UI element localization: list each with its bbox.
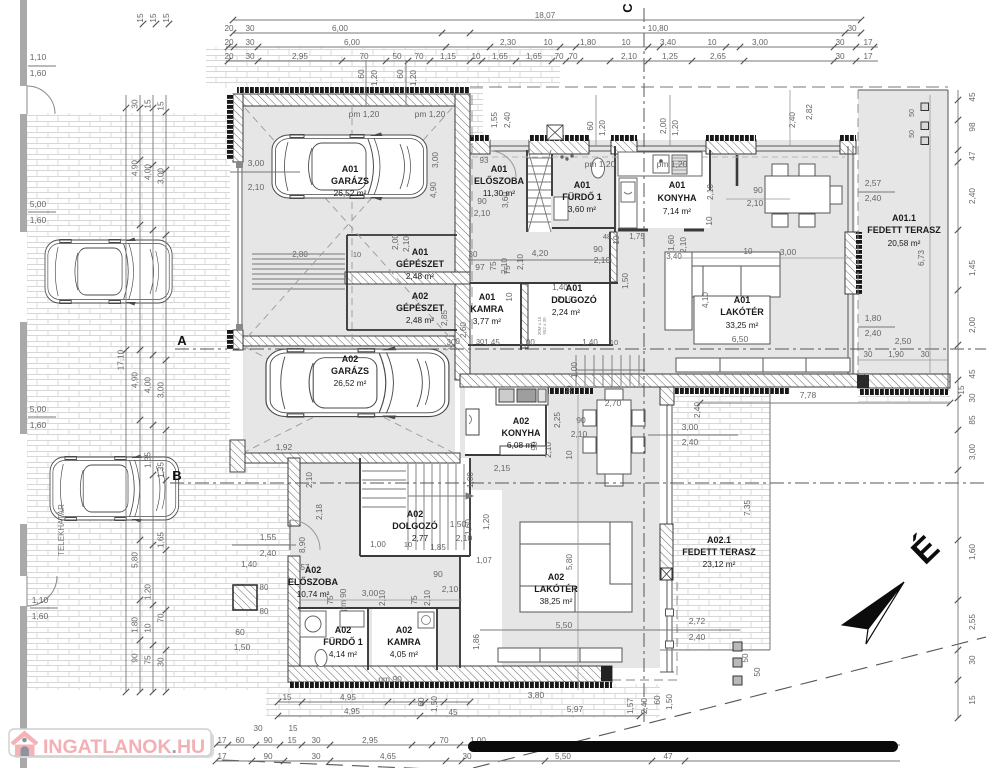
svg-text:1,65: 1,65 [157,532,166,548]
section line B-B [170,482,986,484]
svg-text:2,40: 2,40 [788,112,797,128]
svg-text:2,10: 2,10 [474,208,491,218]
svg-text:4,90: 4,90 [131,372,140,388]
svg-text:20: 20 [224,38,234,47]
A02 east window wall [660,405,674,672]
svg-text:4,65: 4,65 [380,752,396,761]
paving: small patch below north strip [465,88,483,135]
bath A02 fixtures [300,611,364,667]
white floor: kitchen A01 [617,150,710,228]
insulation row on pier #3 [611,135,637,141]
svg-text:1,20: 1,20 [370,70,379,86]
black scale bar [468,741,898,752]
A01 north wall window sill line [470,146,856,151]
svg-text:93: 93 [480,156,489,165]
svg-text:2,40: 2,40 [865,328,882,338]
wall: A02 west upper block [288,458,300,526]
svg-text:10,80: 10,80 [648,24,669,33]
svg-text:90: 90 [593,244,603,254]
terrace A02.1 edge [660,386,770,650]
svg-text:1,90: 1,90 [888,350,904,359]
room label A02 KONYHA [501,416,541,450]
top dim row 4 [224,52,878,64]
svg-text:1,65: 1,65 [526,52,542,61]
svg-text:1,55: 1,55 [490,112,499,128]
left dim col 2 [131,95,144,695]
svg-text:80: 80 [260,607,269,616]
car in garage A01 [272,133,427,201]
svg-text:2,10: 2,10 [248,182,265,192]
garage interior dashed diagonals [245,106,452,452]
room label A02.1 FEDETT TERASZ [682,535,756,569]
dark band outside garage west wall [227,94,233,160]
insulation row below terrace A01.1 south wall [860,389,948,395]
svg-text:5,80: 5,80 [565,554,574,570]
svg-text:2,15: 2,15 [494,463,511,473]
tv cabinet row A01 [676,358,850,372]
room label A02 GARAZS [331,354,369,388]
svg-text:90: 90 [131,653,140,663]
section line C-C [643,8,645,726]
svg-text:10: 10 [705,216,714,226]
svg-text:1,60: 1,60 [968,544,977,560]
svg-text:15: 15 [957,385,966,395]
svg-text:6,73: 6,73 [917,250,926,266]
svg-text:2,24 m²: 2,24 m² [552,307,580,317]
chimney [547,125,563,140]
svg-text:A02: A02 [407,509,424,519]
bath A01 fixtures [554,155,605,220]
svg-text:2,40: 2,40 [640,698,649,714]
hatched shaft in paving [233,585,257,610]
svg-text:4,00: 4,00 [144,164,153,180]
svg-text:2,95: 2,95 [292,52,308,61]
svg-text:KONYHA: KONYHA [657,193,697,203]
svg-text:50: 50 [909,130,916,138]
paving: north strip in front of garage [206,47,560,88]
top-left small rotated dims [136,13,172,27]
svg-text:pm 1,20: pm 1,20 [657,159,688,169]
svg-text:30: 30 [157,657,166,667]
svg-text:A02: A02 [305,565,322,575]
room label A01 GEPESZET [396,247,445,281]
floor fill unit A02 lower left [290,455,460,668]
dashed line garage front [471,95,473,345]
svg-text:75: 75 [144,655,153,665]
svg-text:1,60: 1,60 [464,519,473,535]
svg-text:30: 30 [311,736,321,745]
svg-text:LAKÓTÉR: LAKÓTÉR [534,583,578,594]
svg-text:90: 90 [263,752,273,761]
stair A01 lower flight [576,355,645,386]
svg-text:2,48 m²: 2,48 m² [406,271,434,281]
dashed floor-above outline A01 [472,156,845,158]
svg-text:1,10: 1,10 [30,52,47,62]
svg-text:20: 20 [224,52,234,61]
car parked top-left yard [45,238,172,306]
svg-text:1,60: 1,60 [30,68,47,78]
garage doors west (thin lines) [236,162,243,330]
pedestrian gate bottom with swing arc [27,576,57,606]
svg-text:1,50: 1,50 [665,694,674,710]
svg-text:4,05 m²: 4,05 m² [390,649,418,659]
svg-text:A: A [177,333,187,348]
svg-text:1,57: 1,57 [626,698,635,714]
svg-text:7,35: 7,35 [743,500,752,516]
svg-text:85: 85 [968,415,977,425]
svg-text:80: 80 [260,583,269,592]
svg-text:17,10: 17,10 [117,349,126,370]
roof overhang dashed line terrace west [857,90,859,374]
svg-text:1,35: 1,35 [157,462,166,478]
A01 east window wall [848,146,853,374]
paving: strip below terrace A01.1 [858,385,950,402]
terrace A01.1 edge lines [858,90,948,390]
room label A01 KONYHA [657,180,697,216]
svg-text:1,60: 1,60 [30,215,47,225]
svg-text:3,77 m²: 3,77 m² [473,316,501,326]
dims in front of garage [357,60,670,146]
svg-text:15: 15 [162,13,171,23]
wall: between mechanical rooms A01/A02 [345,272,470,284]
left gate dims [28,52,58,621]
svg-text:1,20: 1,20 [409,70,418,86]
svg-text:FEDETT TERASZ: FEDETT TERASZ [867,225,941,235]
svg-text:48: 48 [603,232,611,241]
svg-text:A01: A01 [342,164,359,174]
room label A02 ELOSZOBA [288,565,339,599]
top dim row 1 [230,11,864,23]
svg-text:A01: A01 [566,283,583,293]
svg-text:2,72: 2,72 [689,616,706,626]
svg-text:3,80: 3,80 [528,690,545,700]
svg-text:5,00: 5,00 [30,404,47,414]
svg-text:30: 30 [835,52,845,61]
svg-text:15: 15 [144,99,153,109]
svg-text:1,85: 1,85 [430,543,446,552]
svg-text:1,80: 1,80 [131,617,140,633]
svg-text:GARÁZS: GARÁZS [331,176,369,186]
wall: below A02 garage [243,453,460,463]
svg-text:10: 10 [353,250,361,259]
svg-text:5,97: 5,97 [567,704,584,714]
svg-text:10: 10 [707,38,717,47]
svg-text:4,95: 4,95 [340,693,356,702]
svg-text:6,00: 6,00 [332,24,348,33]
svg-text:1,00: 1,00 [466,472,475,488]
property boundary dashed line west part [222,760,500,768]
svg-text:2,77: 2,77 [412,533,429,543]
svg-text:60: 60 [586,121,595,131]
white floor: kamra A02 [372,608,437,670]
svg-text:1,40: 1,40 [241,560,257,569]
stair A02 small run [362,471,406,507]
white floor: kamra A01 [468,283,520,345]
svg-text:4,14 m²: 4,14 m² [329,649,357,659]
svg-text:2,40: 2,40 [682,437,699,447]
floor fill terrace A01.1 [858,90,948,378]
wall pier A02 east mid [660,524,673,580]
room label A02 KAMRA [387,625,421,659]
entrance door A02 [290,520,320,550]
svg-text:3,00: 3,00 [968,444,977,460]
svg-text:10: 10 [744,247,753,256]
svg-text:70: 70 [414,52,424,61]
svg-text:30: 30 [835,38,845,47]
svg-text:15: 15 [287,736,297,745]
white floor: kitchen A02 [465,387,548,455]
svg-text:20,58 m²: 20,58 m² [888,238,921,248]
svg-text:2,10: 2,10 [402,236,411,252]
svg-text:60: 60 [235,736,245,745]
svg-text:GÉPÉSZET: GÉPÉSZET [396,259,445,269]
svg-text:70: 70 [359,52,369,61]
svg-text:1,75: 1,75 [629,232,645,241]
floor fill unit A02 living [502,490,660,668]
svg-text:45: 45 [449,708,458,717]
kitchen counter A02 [466,387,548,455]
svg-text:1,60: 1,60 [30,420,47,430]
post 60x60 terrace A01.1 #2 [921,122,929,130]
svg-text:2,40: 2,40 [503,112,512,128]
wall: garage west lower block [233,330,243,350]
svg-text:GÉPÉSZET: GÉPÉSZET [396,303,445,313]
svg-text:30: 30 [469,250,478,259]
svg-text:2,70: 2,70 [605,398,622,408]
insulation row on A02 kitchen side [523,388,593,394]
svg-text:GARÁZS: GARÁZS [331,366,369,376]
svg-text:10: 10 [565,450,574,460]
svg-text:6,08 m²: 6,08 m² [507,440,535,450]
insulation row on pier #4 [706,135,756,141]
svg-text:2,18: 2,18 [315,504,324,520]
svg-text:2,10: 2,10 [442,584,459,594]
svg-text:A01: A01 [412,247,429,257]
svg-text:18,07: 18,07 [535,11,556,20]
dining table A02 [583,389,645,486]
pedestrian gate top with swing arc [27,86,55,114]
svg-text:4,90: 4,90 [131,160,140,176]
svg-text:LAKÓTÉR: LAKÓTÉR [720,306,764,317]
north arrow [842,529,947,644]
svg-text:FEDETT TERASZ: FEDETT TERASZ [682,547,756,557]
svg-text:1,07: 1,07 [476,556,492,565]
floor fill garage A01 [243,106,455,345]
svg-text:30: 30 [447,338,456,347]
svg-text:A01: A01 [669,180,686,190]
top dim row 3 [224,38,878,50]
svg-text:97: 97 [475,262,485,272]
hatched corner block left of A02 garage [230,440,245,472]
insulation row on pier #1 [470,135,490,141]
svg-text:A02.1: A02.1 [707,535,731,545]
svg-text:C: C [620,3,635,13]
svg-text:2,55: 2,55 [968,614,977,630]
floor fill unit A02 dining/corridor [460,380,660,490]
kitchen counter A01 [618,152,702,228]
post 60x60 terrace A01.1 #3 [921,137,929,145]
interior dims unit A01 [230,90,953,406]
svg-text:47: 47 [663,752,673,761]
wall pier A01 east [845,232,859,294]
svg-text:75: 75 [489,261,498,271]
svg-text:30: 30 [253,724,263,733]
svg-text:26,52 m²: 26,52 m² [334,188,367,198]
svg-text:2,10: 2,10 [305,472,314,488]
svg-text:2,95: 2,95 [362,736,378,745]
svg-text:17: 17 [863,38,873,47]
svg-text:60: 60 [653,695,662,705]
insulation row above garage north wall [237,87,470,93]
svg-text:A01.1: A01.1 [892,213,916,223]
svg-text:45: 45 [968,92,977,102]
svg-text:23,12 m²: 23,12 m² [703,559,736,569]
svg-text:75: 75 [410,595,419,605]
svg-text:2,82: 2,82 [805,104,814,120]
svg-text:1,00: 1,00 [519,338,535,347]
svg-text:15: 15 [288,724,298,733]
wall pier A01 north #3 [611,140,637,154]
svg-text:A02: A02 [412,291,429,301]
wall: terrace A01.1 south [858,374,950,388]
svg-text:2,10: 2,10 [516,254,525,270]
svg-text:30: 30 [462,752,472,761]
svg-text:2,10: 2,10 [594,255,611,265]
white floor: stair A01 [528,150,551,232]
roof overhang dashed line north [470,86,948,88]
svg-text:ELŐSZOBA: ELŐSZOBA [474,175,525,186]
svg-text:50: 50 [741,653,750,663]
white floor: bath A02 [298,608,368,670]
wall pier A01 north #5 [840,140,856,154]
svg-text:1,86: 1,86 [472,634,481,650]
wall pier A01 north #4 [706,140,756,154]
svg-text:6,00: 6,00 [344,38,360,47]
svg-text:3,00: 3,00 [752,38,768,47]
svg-text:2,10: 2,10 [706,184,715,200]
svg-text:15: 15 [282,693,292,702]
wall: garage west upper [233,94,243,162]
svg-text:3,40: 3,40 [660,38,676,47]
svg-text:30: 30 [968,393,977,403]
svg-text:2,10: 2,10 [423,590,432,606]
wall: A01/A02 separation band [460,374,860,387]
svg-text:1,92: 1,92 [276,442,293,452]
svg-text:A02: A02 [513,416,530,426]
wall strip left of dolgozo [521,284,528,348]
svg-text:30: 30 [131,99,140,109]
svg-text:2,25: 2,25 [553,412,562,428]
svg-text:2,40: 2,40 [693,402,702,418]
svg-text:2,10: 2,10 [621,52,637,61]
svg-text:1,40: 1,40 [582,338,598,347]
svg-text:ELŐSZOBA: ELŐSZOBA [288,576,339,587]
svg-text:15: 15 [968,695,977,705]
svg-text:3,40: 3,40 [666,252,682,261]
svg-text:2,10: 2,10 [378,590,387,606]
svg-text:DOLGOZÓ: DOLGOZÓ [392,520,438,531]
svg-text:1,45: 1,45 [484,338,500,347]
svg-text:60: 60 [396,69,405,79]
svg-text:30: 30 [245,52,255,61]
insulation row below A02 south wall [290,682,612,688]
paving: left of unit A02 [230,445,300,690]
svg-text:11,30 m²: 11,30 m² [483,188,515,198]
svg-text:7,78: 7,78 [800,390,817,400]
svg-text:10: 10 [144,623,153,633]
washer kamra A02 [418,612,434,628]
wall: A02 garage north [243,336,455,346]
svg-text:pm 1,20: pm 1,20 [585,159,616,169]
svg-text:FÜRDŐ 1: FÜRDŐ 1 [562,191,602,202]
svg-text:2,00: 2,00 [968,317,977,333]
svg-text:10: 10 [612,235,621,245]
svg-text:15: 15 [149,13,158,23]
dark band outside garage west wall lower [227,330,233,350]
room label A01 LAKOTER [720,295,764,330]
svg-text:10: 10 [471,52,481,61]
room label A01 FURDO [562,180,602,214]
svg-text:3,00: 3,00 [362,588,379,598]
svg-text:A02: A02 [396,625,413,635]
room label A01 KAMRA [470,292,504,326]
cabinet row A02 [498,648,622,662]
sofa A01 [665,252,780,344]
svg-text:17: 17 [217,736,227,745]
paving: east yard with terrace A02.1 [673,386,770,650]
svg-text:2,10: 2,10 [571,429,588,439]
svg-text:20: 20 [224,24,234,33]
svg-text:KAMRA: KAMRA [387,637,421,647]
svg-text:pm 1,20: pm 1,20 [349,109,380,119]
svg-text:1,00: 1,00 [370,540,386,549]
svg-text:70: 70 [568,52,578,61]
svg-text:5,50: 5,50 [555,752,571,761]
column SE corner living A02 [661,568,672,580]
svg-text:2,40: 2,40 [689,632,706,642]
svg-text:A02: A02 [335,625,352,635]
property boundary band (telekhatar) [20,0,27,768]
section line A-A [175,348,986,350]
post 50x50 #2 [733,658,742,667]
svg-text:4,95: 4,95 [344,707,360,716]
right rotated dim texts [957,92,977,705]
svg-text:3,00: 3,00 [157,382,166,398]
svg-text:2,10: 2,10 [544,442,553,458]
grate element left of mechanical rooms [252,254,345,289]
white floor: dolgozo A01 [527,284,610,345]
svg-text:70: 70 [554,52,564,61]
svg-text:TELEKHATÁR: TELEKHATÁR [57,504,66,556]
room label A01 DOLGOZO [551,283,597,317]
svg-text:2,57: 2,57 [865,178,882,188]
svg-text:2,65: 2,65 [710,52,726,61]
svg-text:30: 30 [565,385,574,395]
svg-text:90: 90 [753,185,763,195]
svg-text:952 x 30: 952 x 30 [542,317,547,335]
svg-text:INGATLANOK.HU: INGATLANOK.HU [43,736,205,758]
svg-text:47: 47 [968,151,977,161]
bottom dim row 2 [213,752,900,764]
svg-text:A01: A01 [491,164,508,174]
svg-text:10: 10 [610,338,618,347]
svg-text:2,40: 2,40 [865,193,882,203]
svg-text:FÜRDŐ 1: FÜRDŐ 1 [323,636,363,647]
svg-text:3,00: 3,00 [248,158,265,168]
svg-text:30: 30 [864,350,873,359]
svg-text:pm 1,20: pm 1,20 [415,109,446,119]
sofa A02 [520,522,632,612]
